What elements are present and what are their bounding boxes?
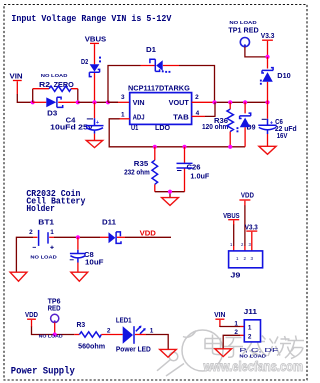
wire R3 to LED <box>101 334 122 336</box>
ground (J11) <box>215 349 232 357</box>
label part text (J11) <box>239 348 278 354</box>
ground (battery) <box>10 272 27 281</box>
svg-text:TP1 RED: TP1 RED <box>228 27 258 34</box>
node junction C26 top <box>182 145 186 149</box>
svg-text:VOUT: VOUT <box>169 100 190 107</box>
svg-text:J11: J11 <box>244 309 258 316</box>
svg-text:TAB: TAB <box>173 114 189 121</box>
power symbol VBUS <box>85 34 107 64</box>
wire R35/C26 bottom rail <box>155 192 185 198</box>
pin number 1 (BT1) <box>50 229 54 236</box>
capacitor C6 <box>258 102 296 146</box>
caption Power Supply <box>11 365 75 377</box>
node junction VBUS/C4 <box>92 100 96 104</box>
wire ADJ feedback <box>109 119 245 147</box>
svg-text:2: 2 <box>195 94 199 101</box>
svg-text:1: 1 <box>150 328 154 335</box>
wire D3 to node <box>58 101 78 103</box>
label NO LOAD (TP1) <box>229 20 257 26</box>
pin number 2 (LED) <box>107 328 111 335</box>
node junction at R2/D3 left <box>31 100 35 104</box>
power symbol VBUS (J9) <box>223 211 240 225</box>
node junction ground rail <box>168 190 172 194</box>
wire rail D3 left lead <box>33 101 47 103</box>
wire D11 to VDD <box>125 236 171 238</box>
op-amp U1 regulator NCP1117 <box>128 86 192 133</box>
svg-text:VIN: VIN <box>10 72 23 81</box>
power symbol V3.3 (J9) <box>245 222 258 251</box>
svg-text:2: 2 <box>248 333 252 340</box>
svg-text:1: 1 <box>248 324 252 331</box>
wire TAB to VOUT <box>192 102 215 117</box>
wire rail to VBUS node <box>78 101 118 103</box>
svg-text:LED1: LED1 <box>116 317 132 324</box>
svg-text:1: 1 <box>50 229 54 236</box>
resistor R2 <box>33 82 78 102</box>
pin number 1 (J11) <box>234 320 238 327</box>
node junction C8 <box>76 235 80 239</box>
wire rail to pin3 <box>108 101 130 103</box>
svg-text:D3: D3 <box>47 111 57 118</box>
svg-text:10uF: 10uF <box>85 259 104 266</box>
svg-text:U1: U1 <box>131 125 138 132</box>
resistor R35 <box>124 147 158 192</box>
power symbol VIN (top left) <box>10 72 23 95</box>
wire D1 leads <box>141 65 180 67</box>
svg-text:R35: R35 <box>134 161 149 168</box>
wire VIN to rail <box>17 94 33 102</box>
svg-text:D11: D11 <box>102 220 116 227</box>
pin number 1 (LED) <box>150 328 154 335</box>
caption CR2032 <box>26 188 85 214</box>
svg-text:120 ohm: 120 ohm <box>202 124 228 131</box>
wire D2 to rail <box>94 73 96 102</box>
svg-text:VBUS: VBUS <box>223 211 240 220</box>
capacitor C26 <box>177 147 211 192</box>
svg-text:VBUS: VBUS <box>85 34 107 43</box>
wire D1 loop <box>108 66 215 103</box>
svg-text:V3.3: V3.3 <box>245 222 258 231</box>
svg-text:16V: 16V <box>277 133 288 140</box>
node junction C6 top <box>265 100 269 104</box>
svg-text:www.elecfans.com: www.elecfans.com <box>203 359 303 374</box>
resistor R36 <box>202 102 233 147</box>
wire TP1 to V3.3 node <box>245 47 268 57</box>
node junction VOUT/D1 <box>212 100 216 104</box>
pin number 1 <box>121 111 125 118</box>
capacitor C8 <box>70 237 105 272</box>
svg-text:D2: D2 <box>81 59 88 66</box>
svg-text:NO LOAD: NO LOAD <box>30 255 57 261</box>
svg-text:D1: D1 <box>146 47 156 54</box>
svg-text:LDO: LDO <box>155 125 171 132</box>
svg-text:Power Supply: Power Supply <box>11 365 75 377</box>
svg-text:Power LED: Power LED <box>116 347 151 354</box>
watermark logo circle <box>157 330 223 376</box>
node junction R36 top <box>228 100 232 104</box>
ground (C6) <box>259 146 276 154</box>
diode D10 <box>260 57 291 102</box>
pin number 2 (J11) <box>234 329 238 336</box>
wire VIN to J11 pin1 <box>220 326 244 328</box>
wire battery left to ground <box>16 237 37 272</box>
connector J9 <box>229 242 263 280</box>
svg-text:RED: RED <box>48 305 61 312</box>
svg-text:1: 1 <box>121 111 125 118</box>
svg-text:NO LOAD: NO LOAD <box>229 20 257 26</box>
ground (R35/C26) <box>162 198 179 206</box>
node junction TP6 <box>53 332 57 336</box>
svg-text:VDD: VDD <box>25 310 38 319</box>
svg-text:V3.3: V3.3 <box>261 31 275 40</box>
wire VOUT rail <box>192 101 268 103</box>
net label VDD (red) <box>140 228 156 237</box>
label NO LOAD (BT1) <box>30 255 57 261</box>
diode D1 <box>146 47 170 73</box>
pin number 2 <box>195 94 199 101</box>
svg-text:VDD: VDD <box>241 190 254 199</box>
resistor R3 <box>77 322 106 351</box>
svg-text:1: 1 <box>234 320 238 327</box>
svg-text:BT1: BT1 <box>38 219 54 226</box>
battery BT1 <box>33 219 55 249</box>
node junction R35 top <box>153 145 157 149</box>
watermark text 电子发烧友 <box>205 335 304 359</box>
node junction R36 bottom <box>228 145 232 149</box>
svg-text:D10: D10 <box>277 73 291 80</box>
svg-text:VDD: VDD <box>140 228 156 237</box>
label NO LOAD (R2) <box>41 73 68 79</box>
wire J11 pin2 to ground <box>223 335 244 348</box>
label NO LOAD (TP6) <box>39 334 64 340</box>
label NO LOAD (J11) <box>239 353 266 359</box>
power symbol VIN (bottom) <box>214 310 225 327</box>
svg-text:ADJ: ADJ <box>133 114 145 121</box>
diode D11 <box>100 220 125 244</box>
capacitor C4 <box>50 102 103 140</box>
svg-text:J9: J9 <box>230 273 240 280</box>
svg-text:VIN: VIN <box>133 100 145 107</box>
wire battery to C8 node <box>49 236 100 238</box>
node junction D9 top <box>243 100 247 104</box>
power symbol VDD (J9) <box>239 190 254 206</box>
ground (LED) <box>160 349 177 357</box>
svg-text:1.0uF: 1.0uF <box>190 173 210 180</box>
test point TP1 <box>228 27 258 46</box>
wire VDD to R3 <box>32 327 80 335</box>
svg-text:232 ohm: 232 ohm <box>124 170 150 177</box>
svg-text:560ohm: 560ohm <box>78 344 105 351</box>
LED LED1 <box>116 317 151 353</box>
svg-text:P, C, DF: P, C, DF <box>239 348 278 354</box>
svg-text:VIN: VIN <box>214 310 225 319</box>
svg-text:Holder: Holder <box>26 203 55 214</box>
svg-text:NO LOAD: NO LOAD <box>41 73 68 79</box>
watermark text www.elecfans.com <box>203 359 303 374</box>
test point TP6 <box>48 299 61 335</box>
node junction V3.3 <box>265 55 269 59</box>
pin number 3 <box>121 94 125 101</box>
ground (C8) <box>71 272 88 281</box>
svg-text:3: 3 <box>121 94 125 101</box>
title text <box>11 13 171 24</box>
power symbol VDD (bottom left) <box>25 310 38 327</box>
wire VBUS to J9 <box>233 225 235 251</box>
svg-text:NO LOAD: NO LOAD <box>39 334 64 340</box>
svg-text:R3: R3 <box>77 322 86 329</box>
diode D3 <box>46 97 62 118</box>
power symbol V3.3 (top) <box>261 31 275 57</box>
svg-text:NO LOAD: NO LOAD <box>239 353 266 359</box>
node junction D1 loop left <box>106 100 110 104</box>
pin number 4 <box>196 110 200 117</box>
svg-text:NCP1117DTARKG: NCP1117DTARKG <box>128 86 190 93</box>
pin number 2 (BT1) <box>29 229 33 236</box>
svg-text:Input Voltage Range VIN is 5-1: Input Voltage Range VIN is 5-12V <box>11 13 171 24</box>
connector J11 <box>244 309 261 342</box>
diode D9 <box>237 102 256 147</box>
wire VDD to J9 <box>244 206 246 251</box>
svg-text:22 uFd: 22 uFd <box>275 126 297 133</box>
ground (C4) <box>86 141 102 148</box>
diode D2 <box>81 57 101 77</box>
wire LED to ground <box>135 335 168 350</box>
svg-text:2: 2 <box>29 229 33 236</box>
svg-text:2: 2 <box>107 328 111 335</box>
node junction D3 right <box>76 100 80 104</box>
